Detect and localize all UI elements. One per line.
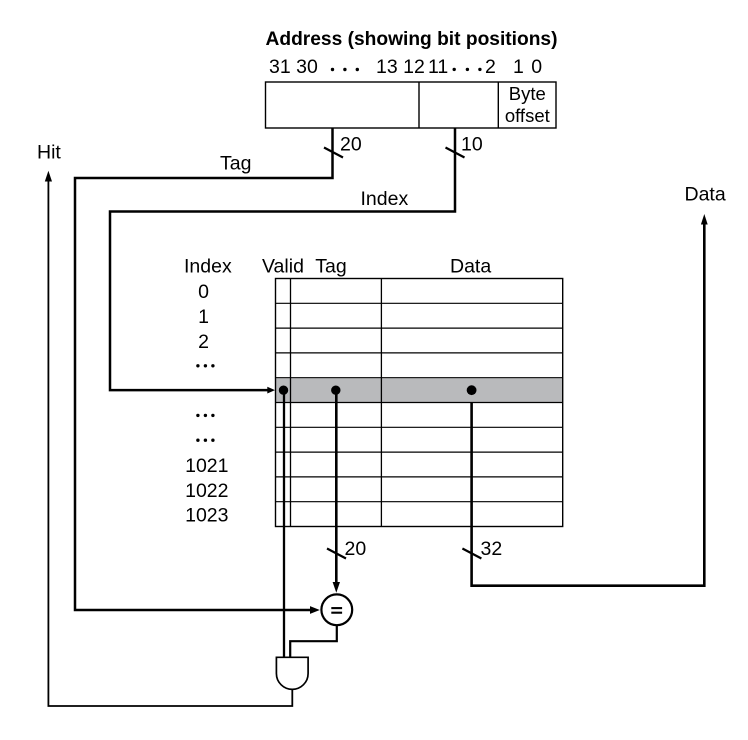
tag bus wire (20 bits) — [75, 128, 333, 610]
address field divider index/byteoffset — [497, 82, 499, 128]
svg-text:0: 0 — [531, 56, 542, 78]
svg-text:1: 1 — [198, 306, 209, 328]
ellipsis row label middle 2 — [196, 439, 214, 442]
slash on data bus — [462, 549, 481, 559]
address field divider tag/index — [418, 82, 420, 128]
svg-text:0: 0 — [198, 281, 209, 303]
bit position dots left group — [331, 68, 359, 71]
svg-text:Index: Index — [184, 256, 232, 278]
index bus arrowhead into table — [267, 387, 275, 394]
hit arrowhead — [45, 171, 52, 182]
svg-text:Byte: Byte — [509, 83, 546, 104]
junction dot tag — [331, 386, 340, 395]
slash on index bus — [446, 148, 465, 158]
index bus wire (10 bits) — [110, 128, 455, 390]
address box — [266, 82, 557, 128]
data arrowhead — [701, 214, 708, 225]
svg-text:31 30: 31 30 — [269, 56, 318, 78]
svg-text:Data: Data — [685, 184, 726, 206]
comparator circle = — [321, 594, 352, 625]
svg-text:Tag: Tag — [220, 153, 251, 175]
junction dot valid — [279, 386, 288, 395]
slash on tag bus — [324, 148, 343, 158]
svg-text:Address (showing bit positions: Address (showing bit positions) — [266, 29, 558, 50]
comparator output wire — [290, 625, 337, 657]
svg-text:13 12: 13 12 — [376, 56, 425, 78]
ellipsis row label middle 1 — [196, 414, 214, 417]
svg-text:20: 20 — [345, 538, 367, 560]
cache table outer box — [276, 279, 563, 527]
svg-text:2: 2 — [485, 56, 496, 78]
svg-text:Hit: Hit — [37, 141, 61, 163]
data output wire — [472, 223, 705, 586]
svg-text:Data: Data — [450, 256, 491, 278]
highlighted cache row — [276, 378, 562, 402]
tag bus arrowhead into comparator — [310, 606, 320, 614]
svg-text:2: 2 — [198, 331, 209, 353]
svg-text:10: 10 — [461, 133, 483, 155]
svg-text:Valid: Valid — [262, 256, 304, 278]
svg-text:Index: Index — [361, 188, 409, 210]
svg-text:Tag: Tag — [315, 256, 346, 278]
svg-text:1: 1 — [513, 56, 524, 78]
svg-text:1022: 1022 — [185, 480, 228, 502]
svg-text:20: 20 — [340, 133, 362, 155]
tag compare wire (20 bits) — [335, 390, 338, 583]
valid column line — [290, 279, 292, 527]
hit output wire from AND gate — [48, 181, 292, 706]
equals sign bars — [331, 607, 342, 609]
svg-text:1023: 1023 — [185, 505, 228, 527]
svg-text:32: 32 — [481, 538, 503, 560]
row lines — [276, 303, 563, 501]
bit position dots right group — [453, 68, 482, 71]
AND gate — [276, 657, 308, 689]
slash on tag compare wire — [327, 549, 346, 559]
valid wire to AND gate — [283, 390, 285, 657]
tag column line — [380, 279, 382, 527]
junction dot data — [467, 385, 477, 395]
ellipsis row label upper — [196, 364, 214, 367]
svg-text:offset: offset — [505, 105, 550, 126]
arrowhead into comparator top — [333, 582, 340, 593]
svg-text:1021: 1021 — [185, 455, 228, 477]
svg-text:11: 11 — [428, 56, 448, 78]
